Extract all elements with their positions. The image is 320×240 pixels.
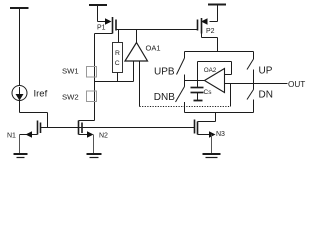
VDD rail stub (left, above Iref) [10, 8, 29, 86]
svg-text:P2: P2 [206, 28, 215, 35]
node A wire (N2 drain / RC / OA1 input net) [95, 81, 134, 83]
current source Iref [12, 86, 27, 101]
switch SW1 [87, 67, 97, 78]
switch DN [247, 90, 254, 113]
wire switch rail bottom [185, 112, 254, 114]
transistor P1 [98, 17, 117, 34]
svg-text:Cs: Cs [204, 89, 213, 96]
wire OA1 sense tap [230, 84, 232, 107]
svg-text:SW2: SW2 [62, 92, 79, 101]
wire P2 drain [202, 34, 218, 52]
wire N2 source to ground [93, 135, 95, 155]
svg-text:DN: DN [259, 90, 273, 101]
op-amp OA1 [125, 30, 148, 107]
transistor N1 [20, 121, 41, 138]
svg-text:N1: N1 [7, 133, 16, 140]
wire OUT node (OA2 input) [225, 83, 288, 85]
wire P1 drain [95, 34, 113, 121]
capacitor Cs [191, 81, 204, 101]
switch SW2 [87, 91, 97, 102]
svg-text:R: R [115, 50, 120, 57]
svg-text:DNB: DNB [154, 92, 175, 103]
op-amp OA2 [205, 69, 225, 93]
wire N1 drain horizontal [20, 112, 48, 114]
svg-text:P1: P1 [97, 25, 106, 32]
wire N3 drain tap [198, 113, 216, 122]
VDD rail stub (above P2) [208, 5, 226, 22]
svg-text:OA1: OA1 [146, 43, 161, 52]
wire N1 diode tie (drain to gate net) [47, 113, 49, 128]
wire switch rail top [185, 51, 254, 53]
svg-text:C: C [115, 60, 120, 67]
svg-text:N3: N3 [216, 131, 225, 138]
svg-text:UP: UP [259, 66, 273, 77]
transistor N3 [195, 120, 216, 138]
switch UP [247, 52, 254, 90]
gate net N1-N2-N3 [41, 127, 195, 129]
svg-text:SW1: SW1 [62, 67, 79, 76]
transistor N2 [79, 121, 94, 138]
ground bar (under Cs) [194, 100, 203, 102]
gate net P1-P2 (op-amp OA1 output) [116, 29, 198, 31]
ground (under N3) [203, 154, 221, 158]
svg-text:OUT: OUT [288, 80, 305, 89]
RC filter box [113, 43, 123, 73]
VDD rail stub (above P1) [89, 5, 107, 22]
wire Iref to N1 drain [19, 101, 21, 113]
ground (under N2) [87, 154, 102, 158]
wire dummy node to OA2 output [185, 80, 205, 82]
svg-text:UPB: UPB [154, 66, 175, 77]
svg-text:OA2: OA2 [204, 67, 217, 74]
transistor P2 [198, 18, 218, 34]
switch DNB [176, 87, 185, 113]
switch UPB [177, 52, 185, 87]
svg-text:N2: N2 [99, 133, 108, 140]
wire N2 drain jog [79, 120, 95, 122]
wire N3 source to ground [211, 135, 213, 155]
svg-text:Iref: Iref [34, 89, 48, 100]
wire OA1 sense net (dotted) [140, 106, 231, 108]
ground (under N1) [14, 154, 28, 158]
wire OA2 feedback loop [198, 62, 232, 81]
wire N1 source to ground [19, 135, 21, 155]
wire RC box to node A [117, 73, 119, 82]
wire gate net to RC box [118, 30, 120, 43]
